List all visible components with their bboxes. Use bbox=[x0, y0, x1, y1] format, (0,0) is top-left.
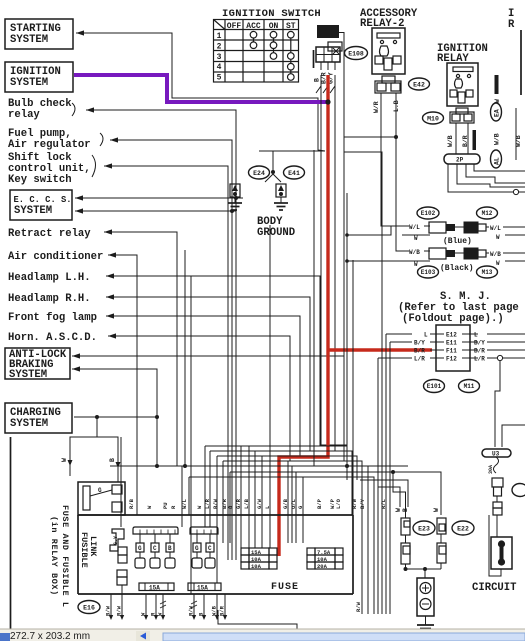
svg-text:W/B: W/B bbox=[490, 251, 501, 258]
fuse group 1 bar bbox=[133, 527, 178, 543]
svg-text:SYSTEM: SYSTEM bbox=[9, 369, 47, 381]
svg-text:L: L bbox=[424, 332, 428, 339]
svg-text:G.Y: G.Y bbox=[113, 536, 119, 545]
svg-text:C: C bbox=[153, 545, 157, 552]
status bar scroll strip bbox=[163, 633, 525, 641]
svg-text:Key switch: Key switch bbox=[8, 174, 72, 186]
svg-text:AL: AL bbox=[494, 157, 501, 165]
svg-text:B: B bbox=[314, 78, 321, 82]
wire ign relay pin1 bbox=[455, 123, 457, 154]
label BODY GROUND bbox=[257, 216, 295, 239]
wire 2p out 2 bbox=[466, 164, 525, 183]
fusible link wiggle bbox=[488, 457, 499, 474]
svg-text:E23: E23 bbox=[418, 525, 430, 532]
wire breaker link bbox=[496, 496, 498, 502]
wire red branch to SMJ bbox=[328, 348, 432, 351]
svg-text:R/B: R/B bbox=[128, 498, 135, 509]
svg-text:B/W: B/W bbox=[105, 605, 112, 616]
fuse group 2 fuses bbox=[192, 543, 215, 568]
wire purple ignition feed bbox=[74, 75, 328, 102]
SMJ pin E11 bbox=[414, 340, 485, 347]
svg-text:L: L bbox=[474, 332, 478, 339]
svg-text:W/B: W/B bbox=[515, 135, 522, 147]
label Fuel pump, Air regulator bbox=[8, 128, 103, 151]
box CHARGING SYSTEM bbox=[5, 403, 72, 433]
battery bbox=[417, 578, 434, 616]
svg-text:E42: E42 bbox=[413, 81, 425, 88]
label ACCESSORY RELAY-2 bbox=[360, 8, 418, 30]
svg-text:L/R: L/R bbox=[414, 356, 425, 363]
svg-text:W/L: W/L bbox=[490, 225, 501, 232]
SMJ right wires bbox=[487, 334, 525, 361]
svg-text:W/B: W/B bbox=[409, 249, 420, 256]
accessory connector pin labels bbox=[373, 100, 400, 113]
clip symbols bottom bbox=[160, 601, 197, 608]
circuit breaker bbox=[491, 515, 512, 569]
fusible link bar right bbox=[495, 75, 499, 94]
svg-text:L/R: L/R bbox=[204, 498, 211, 509]
wire e42 branch bbox=[344, 152, 382, 490]
svg-text:U3: U3 bbox=[492, 451, 500, 458]
svg-text:W/L: W/L bbox=[409, 224, 420, 231]
svg-text:W: W bbox=[395, 508, 402, 512]
svg-text:20A: 20A bbox=[317, 563, 328, 570]
svg-text:B/P: B/P bbox=[316, 498, 323, 509]
svg-text:Headlamp R.H.: Headlamp R.H. bbox=[8, 293, 91, 305]
svg-text:W: W bbox=[61, 458, 68, 462]
wire horn ascd bbox=[108, 333, 290, 461]
box STARTING SYSTEM bbox=[5, 19, 73, 49]
switch contact symbols bbox=[316, 76, 335, 93]
svg-text:W: W bbox=[433, 508, 440, 512]
svg-text:M11: M11 bbox=[464, 383, 475, 390]
status bar bbox=[0, 629, 525, 641]
svg-text:L/B: L/B bbox=[243, 498, 250, 509]
wire band h3 bbox=[217, 456, 357, 480]
svg-text:W: W bbox=[414, 235, 418, 242]
wire eccs 2 bbox=[75, 208, 236, 213]
oval E42 bbox=[409, 78, 430, 90]
oval M11 bbox=[459, 380, 480, 393]
wire feeder 347 vertical bbox=[345, 193, 349, 466]
svg-text:E108: E108 bbox=[348, 50, 364, 57]
ignition connector pin labels bbox=[314, 72, 335, 84]
wire band h3 drop bbox=[216, 456, 218, 583]
SMJ left wires bbox=[378, 334, 412, 358]
wire stub right bbox=[502, 425, 525, 447]
wire bulb check relay bbox=[86, 107, 236, 198]
svg-text:ACC: ACC bbox=[246, 22, 261, 31]
svg-text:OFF: OFF bbox=[227, 22, 242, 31]
svg-text:G: G bbox=[195, 545, 199, 552]
oval M12 bbox=[477, 207, 498, 219]
svg-text:W/B: W/B bbox=[211, 605, 218, 616]
svg-text:B/W: B/W bbox=[212, 498, 219, 509]
wire pin B down bbox=[321, 75, 347, 445]
status bar nav icon bbox=[136, 631, 150, 641]
oval E16 bbox=[78, 601, 100, 614]
node m10 junction bbox=[344, 135, 398, 139]
svg-text:10A: 10A bbox=[251, 563, 262, 570]
wire e23 drop bbox=[393, 472, 406, 505]
svg-text:Front fog lamp: Front fog lamp bbox=[8, 312, 97, 324]
svg-text:E103: E103 bbox=[421, 269, 436, 276]
label Shift lock control unit, Key switch bbox=[8, 152, 96, 186]
label FUSIBLE LINK vertical bbox=[79, 532, 98, 568]
svg-text:SYSTEM: SYSTEM bbox=[14, 205, 52, 217]
svg-text:O/L: O/L bbox=[290, 498, 297, 509]
wire band h1 drop bbox=[204, 446, 206, 527]
wire band h5 long bbox=[110, 464, 408, 598]
svg-text:W/B: W/B bbox=[494, 133, 501, 145]
svg-text:M12: M12 bbox=[482, 210, 493, 217]
svg-text:(Black): (Black) bbox=[440, 264, 474, 273]
svg-text:C: C bbox=[208, 545, 212, 552]
svg-text:M13: M13 bbox=[482, 269, 493, 276]
svg-text:SYSTEM: SYSTEM bbox=[10, 77, 48, 89]
oval right cut bbox=[512, 484, 525, 497]
label Bulb check relay bbox=[8, 98, 75, 121]
svg-text:W: W bbox=[496, 234, 500, 241]
svg-text:GROUND: GROUND bbox=[257, 227, 295, 239]
wire bundle left verticals bbox=[121, 198, 303, 594]
svg-text:FUSIBLE: FUSIBLE bbox=[79, 532, 89, 568]
svg-text:W/R: W/R bbox=[373, 101, 380, 113]
svg-text:5: 5 bbox=[217, 74, 222, 83]
wire starting system feed bbox=[76, 30, 325, 151]
svg-text:(Foldout page).): (Foldout page).) bbox=[402, 313, 504, 325]
bundle verticals bbox=[378, 334, 390, 598]
wire charging drop 2 bbox=[97, 437, 121, 482]
svg-text:2P: 2P bbox=[456, 157, 464, 164]
label refer to last page bbox=[398, 302, 519, 325]
box ANTI-LOCK BRAKING SYSTEM bbox=[5, 348, 70, 381]
connector pair row 1 W/L bbox=[347, 222, 525, 242]
oval E103 bbox=[418, 266, 439, 278]
wire headlamp lh bbox=[106, 273, 320, 446]
bottom left blue corner bbox=[0, 633, 10, 641]
bottom wires with labels bbox=[105, 594, 228, 620]
oval E23 bbox=[413, 521, 435, 535]
wire ign relay pin2 bbox=[467, 123, 469, 154]
wire acc pin 1 bbox=[381, 93, 391, 226]
relay IGNITION RELAY bbox=[447, 63, 478, 106]
bundle corner 1 bbox=[360, 480, 408, 507]
svg-text:30A: 30A bbox=[488, 465, 494, 474]
svg-text:E24: E24 bbox=[253, 170, 265, 177]
wire band h2 bbox=[210, 451, 352, 515]
oval AL bbox=[491, 150, 502, 168]
svg-text:Retract relay: Retract relay bbox=[8, 228, 91, 240]
ignition switch table bbox=[214, 20, 299, 83]
svg-text:ON: ON bbox=[269, 22, 279, 31]
svg-text:G: G bbox=[138, 545, 142, 552]
relay box small bbox=[78, 482, 125, 515]
svg-text:R/W: R/W bbox=[355, 601, 362, 612]
fuse grid right bbox=[307, 548, 343, 570]
ignition relay connector bbox=[450, 108, 474, 123]
wire misc vertical 353 bbox=[352, 260, 354, 515]
svg-text:ST: ST bbox=[286, 22, 296, 31]
wire retract relay bbox=[104, 229, 177, 466]
node purple-red junction bbox=[325, 99, 330, 104]
wire band h4 drop bbox=[222, 461, 224, 543]
connector below bbox=[492, 478, 503, 496]
svg-text:B/Y: B/Y bbox=[474, 340, 485, 347]
wire B/R red main bbox=[279, 75, 328, 556]
svg-text:(Blue): (Blue) bbox=[443, 237, 472, 246]
wire band h7 drop bbox=[188, 477, 190, 515]
ground battery bbox=[417, 616, 434, 632]
accessory relay connector bbox=[375, 76, 401, 93]
wire shift lock bbox=[104, 163, 228, 560]
label IGNITION RELAY bbox=[437, 43, 488, 65]
fuse box outline bbox=[78, 515, 353, 594]
svg-text:R: R bbox=[508, 19, 515, 31]
relay ACCESSORY RELAY-2 bbox=[372, 28, 405, 74]
ground connector right bbox=[273, 174, 288, 210]
svg-text:EA: EA bbox=[494, 109, 501, 117]
bundle corner 2 bbox=[378, 487, 400, 507]
svg-text:3: 3 bbox=[217, 53, 222, 62]
svg-text:B: B bbox=[168, 545, 172, 552]
wire band h4 bbox=[223, 461, 362, 598]
svg-text:B/R: B/R bbox=[414, 348, 425, 355]
svg-text:E41: E41 bbox=[288, 170, 300, 177]
connector pair row 2 W/B bbox=[347, 137, 525, 268]
right edge wires bbox=[515, 30, 522, 160]
svg-text:1: 1 bbox=[217, 32, 222, 41]
svg-text:IGNITION SWITCH: IGNITION SWITCH bbox=[222, 8, 321, 20]
wire fuel pump bbox=[110, 137, 232, 560]
svg-text:G/W: G/W bbox=[256, 498, 263, 509]
wire body ground feed bbox=[259, 151, 275, 174]
wire 2p out 4 bbox=[448, 164, 525, 195]
svg-text:E. C. C. S.: E. C. C. S. bbox=[14, 195, 72, 205]
svg-text:R/W: R/W bbox=[116, 605, 123, 616]
wire color labels above fuse box bbox=[128, 498, 387, 509]
svg-text:CIRCUIT: CIRCUIT bbox=[472, 582, 517, 594]
bottom bundle arrows bbox=[355, 598, 390, 614]
svg-text:F12: F12 bbox=[446, 356, 457, 363]
svg-text:Headlamp L.H.: Headlamp L.H. bbox=[8, 272, 91, 284]
wire pin G/Y down bbox=[334, 75, 336, 451]
svg-text:E16: E16 bbox=[83, 604, 95, 611]
battery junction bbox=[404, 567, 442, 578]
oval E108 bbox=[345, 47, 368, 60]
svg-text:272.7 x 203.2 mm: 272.7 x 203.2 mm bbox=[10, 631, 90, 641]
svg-text:G/R: G/R bbox=[235, 498, 242, 509]
fusible link component bbox=[110, 529, 127, 563]
wire L/R down bbox=[495, 361, 500, 447]
svg-text:15A: 15A bbox=[149, 585, 160, 592]
svg-text:G/B: G/B bbox=[282, 498, 289, 509]
E23 connector stack bbox=[395, 505, 410, 569]
svg-text:8|7|6|5: 8|7|6|5 bbox=[319, 32, 339, 38]
svg-text:W: W bbox=[414, 261, 418, 268]
top right partial label bbox=[508, 8, 515, 31]
oval E41 bbox=[284, 166, 305, 179]
wire band h2 drop bbox=[209, 451, 211, 527]
svg-text:L/R: L/R bbox=[474, 356, 485, 363]
oval E24 bbox=[249, 166, 270, 179]
connector cap bbox=[493, 502, 502, 515]
SMJ pin E12 bbox=[424, 332, 478, 339]
oval E101 bbox=[424, 380, 445, 393]
svg-text:E102: E102 bbox=[421, 210, 436, 217]
wire headlamp rh bbox=[106, 294, 310, 451]
svg-text:E101: E101 bbox=[427, 383, 442, 390]
svg-text:B/Y: B/Y bbox=[414, 340, 425, 347]
svg-text:B: B bbox=[109, 458, 116, 462]
ignition relay pin labels bbox=[447, 135, 469, 147]
ignition switch pin number block bbox=[317, 25, 339, 38]
svg-text:F11: F11 bbox=[446, 348, 457, 355]
oval EA bbox=[491, 103, 502, 121]
wire band h1 bbox=[205, 446, 347, 480]
svg-text:relay: relay bbox=[8, 109, 40, 121]
fuse grid left bbox=[241, 548, 277, 570]
wire breaker loop bbox=[489, 515, 501, 576]
svg-text:L/O: L/O bbox=[335, 498, 342, 509]
connector 2P bbox=[444, 154, 480, 164]
fuse label bar 1 bbox=[139, 583, 174, 592]
svg-text:4: 4 bbox=[217, 63, 222, 72]
wire 2p out 1 bbox=[474, 164, 525, 171]
wire air conditioner bbox=[108, 252, 137, 515]
bottom connector line bbox=[218, 610, 297, 633]
svg-text:SYSTEM: SYSTEM bbox=[10, 34, 48, 46]
SMJ pin F11 bbox=[414, 348, 485, 355]
svg-text:E22: E22 bbox=[457, 525, 469, 532]
SMJ box bbox=[436, 325, 470, 371]
oval M13 bbox=[477, 266, 498, 278]
svg-text:4|3|2|1: 4|3|2|1 bbox=[319, 27, 339, 33]
wire charging drop 1 bbox=[61, 417, 97, 476]
wire antilock 1 bbox=[72, 353, 344, 358]
fuse group 1 fuses bbox=[135, 543, 175, 568]
E22 connector stack bbox=[433, 508, 446, 569]
svg-text:E11: E11 bbox=[446, 340, 457, 347]
wire bodyground branch bbox=[313, 150, 315, 466]
box E.C.C.S. SYSTEM bbox=[10, 190, 72, 220]
wire 2p out 3 bbox=[457, 164, 525, 187]
fuse label bar 2 bbox=[188, 583, 221, 592]
svg-text:B/R: B/R bbox=[219, 605, 226, 616]
oval E22 bbox=[452, 521, 474, 535]
wire antilock 2 bbox=[72, 366, 157, 417]
svg-text:B/R: B/R bbox=[474, 348, 485, 355]
oval E102 bbox=[417, 207, 439, 219]
svg-text:R/W: R/W bbox=[351, 498, 358, 509]
wire eccs 1 bbox=[75, 195, 243, 200]
svg-text:FUSE AND FUSIBLE L: FUSE AND FUSIBLE L bbox=[60, 505, 70, 608]
svg-text:W/B: W/B bbox=[447, 135, 454, 147]
svg-text:W/L: W/L bbox=[181, 498, 188, 509]
svg-text:R/L: R/L bbox=[380, 498, 387, 509]
svg-text:2: 2 bbox=[217, 42, 222, 51]
svg-text:Air regulator: Air regulator bbox=[8, 139, 91, 151]
wire front fog lamp bbox=[106, 313, 300, 456]
wire band h6 drop bbox=[229, 472, 231, 543]
oval M10 bbox=[423, 112, 444, 124]
connector below relay box bbox=[117, 570, 127, 594]
svg-text:15A: 15A bbox=[197, 585, 208, 592]
box IGNITION SYSTEM bbox=[5, 62, 73, 92]
svg-text:LINK: LINK bbox=[88, 536, 98, 557]
svg-text:SYSTEM: SYSTEM bbox=[10, 418, 48, 430]
svg-text:W: W bbox=[496, 260, 500, 267]
fusible link bar bbox=[473, 130, 477, 150]
svg-text:(in RELAY BOX): (in RELAY BOX) bbox=[49, 516, 59, 596]
page edge line bbox=[10, 437, 12, 630]
svg-text:Air conditioner: Air conditioner bbox=[8, 251, 103, 263]
wire acc pin 2 bbox=[395, 93, 397, 137]
wire band h7 bbox=[189, 477, 374, 598]
svg-text:B/Y: B/Y bbox=[359, 498, 366, 509]
fuse group 2 bar bbox=[190, 527, 218, 543]
svg-text:PU: PU bbox=[162, 502, 169, 509]
wire band h6 E22 bbox=[230, 470, 441, 515]
svg-text:E12: E12 bbox=[446, 332, 457, 339]
svg-text:FUSE: FUSE bbox=[271, 582, 299, 593]
connector U3 bar bbox=[482, 449, 511, 458]
SMJ pin F12 bbox=[414, 356, 485, 363]
wire bodyground horizontal bbox=[259, 150, 325, 152]
ignition switch connector bbox=[314, 42, 343, 70]
svg-text:M10: M10 bbox=[427, 115, 439, 122]
wire misc vertical 344 bbox=[339, 33, 344, 462]
svg-text:Horn. A.S.C.D.: Horn. A.S.C.D. bbox=[8, 332, 97, 344]
ground connector left bbox=[228, 174, 273, 210]
wire charging bbox=[74, 415, 159, 466]
